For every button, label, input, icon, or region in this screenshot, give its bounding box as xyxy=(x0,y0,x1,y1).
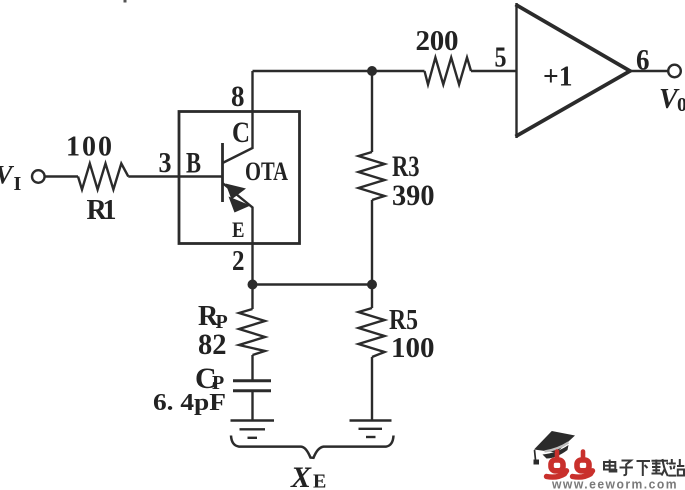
svg-text:2: 2 xyxy=(232,245,245,277)
watermark site name dian xyxy=(604,460,616,472)
svg-text:0: 0 xyxy=(677,94,685,116)
watermark graduation cap logo xyxy=(534,431,576,465)
resistor R5 xyxy=(359,308,385,357)
brace XE xyxy=(231,436,394,458)
transistor Q1 collector xyxy=(223,112,253,163)
svg-text:I: I xyxy=(14,173,22,195)
watermark chongchong character 1 xyxy=(547,452,567,478)
svg-text:R1: R1 xyxy=(87,195,117,226)
output terminal VO xyxy=(668,65,681,78)
wire emitter node rail xyxy=(253,283,373,285)
svg-text:100: 100 xyxy=(391,332,435,364)
watermark site name xia xyxy=(637,461,651,476)
scan speck xyxy=(124,0,127,3)
transistor Q1 base bar xyxy=(221,143,224,202)
resistor RP xyxy=(239,309,265,355)
wire R5 to ground xyxy=(371,357,373,421)
svg-text:390: 390 xyxy=(392,179,435,212)
svg-text:8: 8 xyxy=(231,80,245,113)
svg-text:5: 5 xyxy=(495,42,507,74)
ground right xyxy=(350,419,392,421)
op-amp buffer U1 xyxy=(515,3,517,138)
wire RP to CP xyxy=(251,355,253,380)
svg-text:E: E xyxy=(232,217,245,242)
wire 200 to buffer pin 5 xyxy=(471,70,517,72)
transistor Q1 emitter xyxy=(223,183,253,244)
svg-text:X: X xyxy=(290,461,312,490)
wire node to RP xyxy=(251,285,253,310)
wire R3 to bottom node xyxy=(371,200,373,285)
node junction top xyxy=(367,66,377,76)
node junction bottom right xyxy=(367,280,377,290)
watermark site name zhan xyxy=(668,459,684,476)
wire node to R5 xyxy=(371,285,373,309)
svg-text:E: E xyxy=(313,471,326,490)
resistor R3 xyxy=(359,152,385,200)
wire buffer output xyxy=(630,70,668,72)
input terminal VI xyxy=(32,170,45,183)
svg-text:100: 100 xyxy=(66,132,112,163)
svg-text:OTA: OTA xyxy=(245,157,288,186)
watermark site name zai xyxy=(652,459,669,476)
watermark chongchong character 2 xyxy=(573,452,593,478)
watermark site name zi xyxy=(620,461,633,476)
svg-text:6. 4pF: 6. 4pF xyxy=(153,390,226,416)
svg-text:+1: +1 xyxy=(543,61,573,93)
wire top node to R3 xyxy=(371,71,373,152)
svg-text:200: 200 xyxy=(416,25,459,57)
OTA box xyxy=(179,112,300,244)
wire CP to ground xyxy=(251,391,253,421)
top rail wire xyxy=(253,70,425,72)
svg-text:3: 3 xyxy=(159,148,172,179)
capacitor CP xyxy=(233,379,271,382)
svg-text:B: B xyxy=(186,147,201,180)
ground left xyxy=(231,419,275,421)
svg-text:C: C xyxy=(232,116,250,149)
svg-text:82: 82 xyxy=(198,328,227,361)
svg-text:www.eeworm.com: www.eeworm.com xyxy=(551,478,678,490)
resistor 200 xyxy=(425,58,472,85)
wire pin 8 collector to top rail xyxy=(251,71,253,112)
wire R1 to base pin 3 xyxy=(128,175,222,177)
wire pin 2 emitter to node xyxy=(251,244,253,285)
resistor R1 xyxy=(78,164,128,190)
node junction bottom left xyxy=(248,280,258,290)
emitter arrow xyxy=(226,184,247,200)
wire input terminal to R1 xyxy=(45,175,78,177)
